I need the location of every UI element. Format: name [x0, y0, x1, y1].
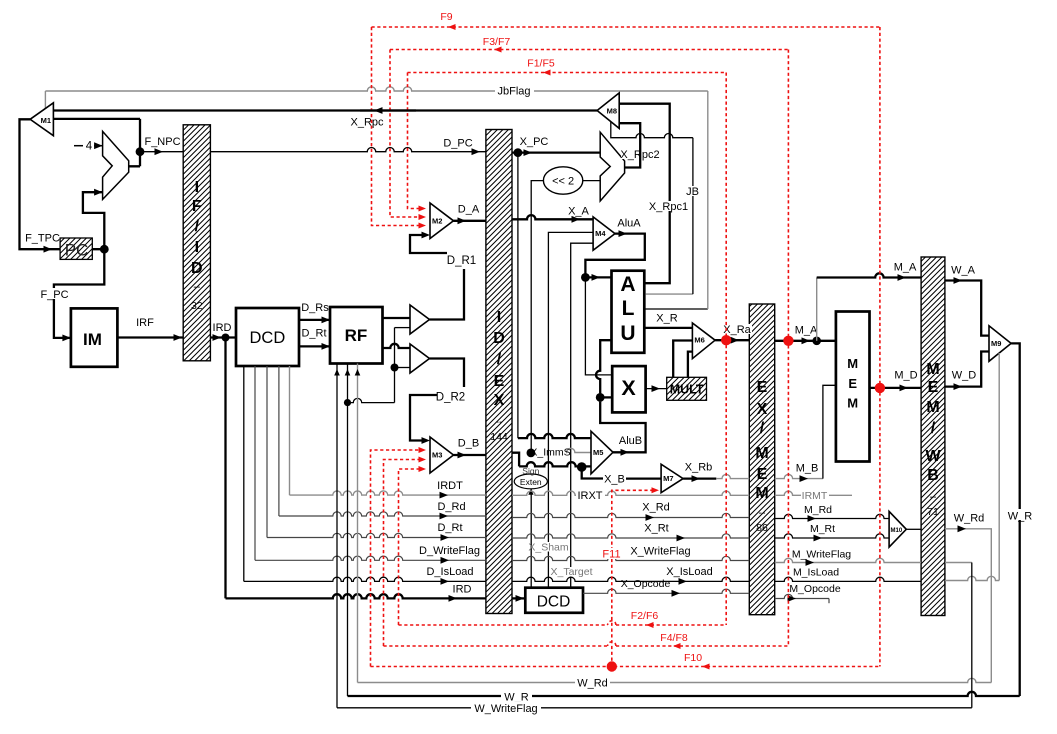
svg-text:M6: M6 — [694, 336, 704, 345]
wire: X_Rpc from mux M8 output to mux M1 input — [53, 109, 597, 111]
red wire: right riser x=726 (F1/F5 - F2/F6) — [725, 73, 727, 626]
svg-text:D_WriteFlag: D_WriteFlag — [419, 545, 480, 557]
oval sign extender — [514, 474, 547, 489]
svg-text:X_Sham: X_Sham — [528, 542, 569, 554]
mux M1 — [30, 103, 53, 136]
svg-text:A: A — [620, 273, 635, 296]
svg-text:I: I — [195, 239, 199, 256]
junction X_ImmS — [527, 449, 536, 458]
svg-text:AluA: AluA — [617, 218, 641, 230]
instruction memory IM — [71, 308, 118, 366]
wire: M_Rt row to mux M10 — [775, 534, 889, 538]
junction IRD — [222, 334, 230, 342]
wire: MULT outputs to mux M6 — [673, 341, 692, 378]
wire: D_R1 net stub — [430, 269, 465, 320]
wire: X_ImmS riser to shifter — [531, 181, 543, 453]
svg-text:M10: M10 — [891, 528, 903, 534]
svg-text:F9: F9 — [440, 11, 452, 23]
svg-text:E: E — [757, 379, 768, 396]
wire: JbFlag gray net to mux M1 select — [707, 91, 709, 309]
svg-text:PC: PC — [65, 241, 89, 260]
wire: M_Rd row to mux M10 — [775, 514, 889, 518]
data memory MEM — [836, 312, 870, 462]
wire: W_A from MEM/WB to mux M9 — [945, 281, 989, 336]
decoder DCD — [236, 308, 299, 366]
mux M3 — [430, 437, 454, 473]
red wire: F2/F6 — [399, 621, 727, 625]
wire: AluA from M4 to ALU — [585, 234, 644, 278]
svg-text:X_Rd: X_Rd — [642, 502, 670, 514]
red wire: F9 — [372, 26, 880, 28]
svg-text:X: X — [621, 376, 636, 400]
svg-text:AluB: AluB — [619, 435, 642, 447]
wire: X_Rpc overlay where red risers cross — [360, 109, 416, 111]
junction F_NPC — [136, 147, 145, 156]
svg-text:M8: M8 — [607, 107, 617, 116]
svg-text:W_R: W_R — [1008, 511, 1033, 523]
wire: W_R from M9 down and to RF — [1011, 343, 1020, 696]
pipeline register IF/ID — [183, 125, 210, 361]
wire: X_Rd row — [512, 513, 749, 517]
svg-text:D_A: D_A — [458, 204, 480, 216]
junction X_B — [577, 462, 587, 472]
svg-text:DCD: DCD — [250, 329, 286, 347]
wire: M_A riser to MEM/WB top — [816, 278, 818, 341]
label JbFlag — [495, 84, 534, 95]
wire: D_WriteFlag row — [254, 366, 256, 560]
red wire: left risers into mux M3 — [371, 450, 421, 667]
svg-text:X_A: X_A — [568, 206, 589, 218]
red junction M_A — [783, 336, 793, 346]
svg-text:--: -- — [759, 507, 766, 519]
svg-text:JB: JB — [686, 186, 699, 198]
svg-text:F11: F11 — [602, 549, 620, 561]
svg-text:IRMT: IRMT — [802, 490, 828, 502]
label F1/F5 — [524, 57, 558, 67]
svg-text:M2: M2 — [432, 216, 442, 225]
pipeline register MEM/WB — [921, 257, 945, 616]
svg-text:I: I — [195, 179, 199, 196]
svg-text:F_PC: F_PC — [40, 289, 68, 301]
pipeline register EX/MEM — [749, 304, 774, 615]
wire: DCD immediate up into sign extender — [530, 489, 532, 588]
svg-text:M_B: M_B — [796, 463, 819, 475]
wire: D_Rt row — [266, 366, 268, 538]
svg-text:D_IsLoad: D_IsLoad — [426, 566, 473, 578]
wire: X_R from ALU to mux M6 — [644, 327, 692, 329]
register PC — [60, 238, 92, 259]
wire: M_IsLoad row — [775, 577, 921, 581]
svg-text:--: -- — [930, 491, 937, 503]
svg-text:/: / — [760, 420, 765, 437]
wire: X to MULT — [646, 388, 667, 390]
svg-text:X_Opcode: X_Opcode — [621, 578, 671, 590]
svg-text:M1: M1 — [41, 116, 51, 125]
svg-text:M_D: M_D — [894, 370, 917, 382]
wire: D_A from M2 to ID/EX — [454, 220, 486, 222]
svg-text:M_A: M_A — [795, 325, 818, 337]
svg-text:X_Rpc1: X_Rpc1 — [649, 201, 688, 213]
svg-text:D_Rd: D_Rd — [437, 501, 465, 513]
svg-text:E: E — [494, 373, 505, 390]
adder branch target — [600, 132, 624, 201]
wire: M_A from EX/MEM to MEM — [775, 340, 836, 342]
svg-text:D_B: D_B — [458, 438, 479, 450]
svg-text:DCD: DCD — [537, 594, 571, 611]
svg-text:D: D — [191, 260, 203, 277]
svg-text:D_R1: D_R1 — [447, 255, 476, 267]
wire: D_Rt DCD to RF — [299, 345, 330, 347]
wire: W_Rd from MEM/WB down to RF — [945, 529, 991, 683]
svg-text:D_Rt: D_Rt — [301, 328, 326, 340]
svg-text:144: 144 — [490, 431, 508, 443]
svg-text:71: 71 — [927, 506, 939, 518]
svg-text:X_PC: X_PC — [520, 136, 549, 148]
svg-text:Exten: Exten — [520, 477, 542, 487]
multiplier X — [612, 366, 645, 412]
svg-text:M_Opcode: M_Opcode — [789, 583, 841, 595]
svg-text:4: 4 — [86, 141, 93, 153]
svg-text:M: M — [926, 399, 939, 416]
svg-text:IM: IM — [83, 330, 102, 349]
svg-text:M: M — [847, 396, 858, 411]
svg-text:X_R: X_R — [656, 313, 677, 325]
mux M9 — [989, 326, 1011, 362]
red wire: F11 riser to mux M7 — [612, 490, 652, 666]
label X_Ra — [723, 324, 752, 334]
mux M4 — [593, 217, 615, 250]
wire: IRF from IM to IF/ID — [117, 336, 183, 338]
wire: W_IsLoad select to mux M9 — [998, 353, 1000, 581]
svg-text:B: B — [927, 467, 939, 484]
svg-text:M_A: M_A — [894, 262, 917, 274]
svg-text:X_Rt: X_Rt — [644, 523, 668, 535]
svg-text:M4: M4 — [595, 229, 606, 238]
svg-text:X_WriteFlag: X_WriteFlag — [630, 546, 690, 558]
svg-text:IRXT: IRXT — [577, 490, 602, 502]
wire: X_WriteFlag row — [512, 556, 749, 560]
svg-text:MULT: MULT — [670, 383, 704, 397]
svg-text:F10: F10 — [684, 652, 702, 664]
svg-text:RF: RF — [345, 326, 368, 345]
wire: X_B branch to mux M7 — [582, 467, 603, 479]
wire: RF read port 1 to buffer — [383, 317, 411, 319]
arrowhead X_Rpc leftward — [374, 107, 383, 114]
svg-text:M_Rd: M_Rd — [804, 504, 832, 516]
wire: M10 output to MEM/WB — [906, 528, 921, 530]
svg-text:W_A: W_A — [951, 265, 976, 277]
wire: D_Rd row — [278, 366, 280, 516]
wire: IRD from IF/ID to DCD — [210, 336, 236, 338]
wire: D_IsLoad row — [243, 366, 245, 581]
label W_Rd (bottom) — [575, 676, 610, 687]
svg-text:X_Target: X_Target — [550, 566, 592, 578]
svg-text:W_WriteFlag: W_WriteFlag — [474, 703, 537, 715]
svg-text:X_Ra: X_Ra — [723, 324, 751, 336]
wire: M5 upper input (X_PC) — [518, 434, 591, 438]
wire: X_IsLoad row — [512, 577, 749, 581]
wire: W_WriteFlag from MEM/WB down to RF — [945, 562, 972, 564]
label F2/F6 — [628, 609, 661, 619]
svg-text:M_WriteFlag: M_WriteFlag — [792, 549, 851, 561]
svg-text:<< 2: << 2 — [552, 176, 574, 188]
wire: X_Opcode row — [583, 589, 749, 593]
pipeline register ID/EX — [486, 130, 512, 614]
wire: F_NPC feedback into mux M1 lower input — [53, 118, 140, 120]
wire: PC output loop to adder — [83, 192, 104, 249]
wire: X_Rpc1 from ALU to mux M8 — [619, 104, 670, 284]
svg-text:F_TPC: F_TPC — [25, 233, 60, 245]
wire: X_Target riser from DCD to mux M4 — [571, 243, 593, 588]
wire: X_PC from ID/EX to branch adder — [512, 151, 600, 153]
mux M8 — [597, 93, 619, 128]
wire: X_PC riser down to mux M5 — [517, 153, 519, 439]
label JB — [684, 186, 701, 196]
mux M10 — [889, 511, 906, 547]
svg-text:IRD: IRD — [213, 322, 232, 334]
svg-text:M: M — [926, 361, 939, 378]
red junction M_D — [875, 383, 885, 393]
wire: -4 constant into adder — [74, 145, 83, 147]
register file RF — [330, 307, 383, 364]
svg-text:M_IsLoad: M_IsLoad — [793, 567, 839, 579]
junction X_PC — [514, 148, 523, 157]
wire: IRD row to ID/EX — [226, 594, 486, 598]
svg-text:M9: M9 — [991, 339, 1001, 348]
adder PC+4 — [103, 131, 129, 199]
wire: X_Rpc2 from adder to mux M8 — [619, 123, 640, 167]
svg-text:M_Rt: M_Rt — [810, 523, 835, 535]
svg-text:/: / — [195, 218, 200, 235]
svg-text:L: L — [622, 297, 635, 320]
svg-text:E: E — [757, 466, 768, 483]
svg-text:F1/F5: F1/F5 — [527, 58, 555, 70]
wire: X_ImmS gray segment to M5 — [566, 448, 591, 452]
label X_A — [566, 205, 592, 216]
svg-text:F3/F7: F3/F7 — [483, 36, 511, 48]
wire: AluB net from mux M5 up into ALU — [596, 340, 646, 452]
svg-text:/: / — [497, 351, 502, 368]
red wire: right riser x=880 (F9 - F10) — [879, 27, 881, 667]
junction M_A — [812, 337, 821, 346]
wire: JB select to mux M8 — [692, 138, 694, 294]
junction W_R branch — [344, 399, 351, 406]
wire: D_Rs DCD to RF — [299, 319, 330, 321]
wire: IRD riser down — [224, 338, 226, 599]
wire: M1 output to PC (F_TPC) — [20, 119, 61, 249]
svg-text:E: E — [848, 376, 857, 391]
svg-text:E: E — [928, 379, 939, 396]
svg-text:X_Rb: X_Rb — [685, 462, 713, 474]
red junction F10/F11 — [607, 661, 617, 671]
wire: D_R2 into mux M3 — [410, 395, 437, 441]
wire: D_B from M3 to ID/EX — [454, 454, 486, 456]
red wire: left risers into mux M2 — [372, 27, 421, 226]
svg-text:M3: M3 — [432, 451, 442, 460]
svg-text:M5: M5 — [593, 448, 603, 457]
wire: M_Opcode stub — [775, 594, 829, 598]
svg-text:W_R: W_R — [504, 692, 529, 704]
label W_R (right) — [1006, 509, 1034, 520]
label X_Target — [556, 567, 589, 577]
wire: RF read port 2 to buffer — [383, 344, 411, 348]
mux M2 — [430, 203, 454, 239]
wire: AluA branch down to multiplier X — [585, 277, 612, 375]
svg-text:W_D: W_D — [952, 370, 977, 382]
svg-text:/: / — [931, 420, 936, 437]
label F10 — [682, 651, 704, 661]
svg-text:JbFlag: JbFlag — [497, 86, 530, 98]
decoder DCD (EX stage) — [525, 588, 583, 613]
wire: D_R1 into mux M2 — [410, 235, 447, 253]
wire F_NPC to IF/ID — [140, 151, 183, 153]
svg-text:F2/F6: F2/F6 — [631, 610, 659, 622]
arrowhead F_NPC — [155, 148, 164, 155]
red wire: right riser x=788 (F3/F7 - F4/F8) — [787, 50, 789, 647]
svg-text:IRD: IRD — [453, 584, 472, 596]
wire: W_R forwarding into read buffers — [395, 327, 411, 329]
junction AluB to X — [596, 393, 605, 402]
svg-text:X_IsLoad: X_IsLoad — [666, 566, 712, 578]
svg-text:X_B: X_B — [604, 474, 625, 486]
wire: shifter output to adder — [583, 180, 600, 182]
wire: X_Rb from M7 to EX/MEM — [683, 477, 716, 479]
red wire: F10 — [371, 666, 880, 668]
label IRMT — [801, 490, 829, 500]
svg-text:86: 86 — [756, 522, 768, 534]
svg-text:M7: M7 — [663, 474, 673, 483]
label F9 — [437, 11, 455, 21]
wire: JB select gray stub from ALU — [646, 293, 693, 295]
svg-text:M: M — [755, 485, 768, 502]
svg-text:IRF: IRF — [136, 317, 154, 329]
label IRXT — [576, 489, 605, 500]
svg-text:D: D — [493, 330, 505, 347]
label X_Sham — [533, 542, 565, 552]
mux M5 — [591, 431, 613, 474]
svg-text:X: X — [757, 401, 768, 418]
wire: D_R2 net stub — [430, 359, 465, 388]
label F11 — [601, 548, 623, 559]
MULT unit — [667, 377, 707, 400]
buffer mux T1 — [410, 305, 430, 334]
junction PC out — [100, 245, 109, 254]
svg-text:U: U — [620, 322, 635, 345]
svg-text:D_Rt: D_Rt — [437, 522, 462, 534]
svg-text:W_Rd: W_Rd — [577, 678, 608, 690]
wire: IRDT row — [289, 366, 291, 495]
wire: X_Sham riser from DCD to mux M4 — [548, 232, 593, 587]
label F4/F8 — [657, 631, 691, 641]
wire: F_PC down to IM — [54, 249, 104, 338]
svg-text:D_PC: D_PC — [443, 138, 472, 150]
mux M6 — [692, 323, 715, 359]
wire: X_Ra from M6 to EX/MEM — [715, 339, 749, 341]
ALU — [612, 271, 645, 353]
wire: M_D from MEM to MEM/WB — [870, 387, 922, 389]
svg-text:X_Rpc: X_Rpc — [350, 117, 384, 129]
wire: IRMT row — [775, 491, 852, 495]
wire: X_B from ID/EX to mux M5 — [512, 453, 519, 467]
shifter << 2 — [543, 167, 582, 194]
wire: IRXT row — [512, 491, 749, 495]
svg-text:X: X — [494, 392, 505, 409]
svg-text:IRDT: IRDT — [437, 480, 463, 492]
wire: M_WriteFlag row — [775, 558, 921, 562]
svg-text:M: M — [755, 445, 768, 462]
wire: M_B from EX/MEM into MEM write port — [775, 474, 823, 478]
svg-text:--: -- — [496, 416, 503, 428]
svg-text:32: 32 — [191, 300, 203, 312]
svg-text:F: F — [192, 198, 202, 215]
label X_Rpc1 — [651, 201, 687, 211]
svg-text:F4/F8: F4/F8 — [660, 632, 688, 644]
buffer mux T2 — [410, 344, 430, 373]
svg-text:F_NPC: F_NPC — [144, 136, 180, 148]
red junction X_Ra — [721, 335, 731, 345]
svg-text:Sign: Sign — [522, 466, 539, 476]
svg-text:M: M — [847, 356, 858, 371]
label W_R (bottom) — [501, 690, 532, 701]
wire adder output riser — [129, 119, 140, 166]
wire: X_Rt row — [512, 534, 749, 538]
svg-text:I: I — [497, 309, 501, 326]
svg-text:W: W — [925, 448, 941, 465]
wire: X_A from ID/EX to mux M4 — [512, 215, 593, 219]
wire: JbFlag from ALU right edge to vertical riser — [644, 308, 708, 310]
wire: IRD into DCD (EX stage) — [512, 597, 525, 599]
wire: D_PC from IF/ID to ID/EX — [210, 148, 486, 152]
red wire: F4/F8 — [384, 642, 789, 646]
label F_PC — [39, 288, 70, 299]
wire: W_D from MEM/WB to mux M9 — [945, 352, 989, 387]
svg-text:W_Rd: W_Rd — [954, 513, 985, 525]
red wire: F1/F5 — [408, 72, 727, 74]
label F3/F7 — [480, 35, 513, 45]
mux M7 — [661, 464, 683, 493]
svg-text:D_Rs: D_Rs — [301, 302, 329, 314]
svg-text:--: -- — [193, 281, 200, 293]
svg-text:D_R2: D_R2 — [436, 392, 465, 404]
red wire: F3/F7 — [390, 49, 788, 51]
junction AluA — [581, 273, 590, 282]
svg-text:X_ImmS: X_ImmS — [530, 447, 570, 459]
label W_WriteFlag (bottom) — [471, 702, 541, 713]
label X_Rpc2 — [621, 149, 659, 159]
